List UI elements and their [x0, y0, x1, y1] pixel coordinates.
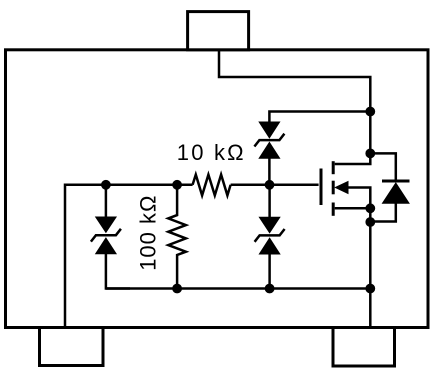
- node R2 top: [172, 180, 182, 190]
- node MOSFET source: [365, 203, 375, 213]
- source rail: [106, 287, 370, 290]
- node gate left (zener D2 top): [101, 180, 111, 190]
- node MOSFET drain: [365, 149, 375, 159]
- wire upper zener to drain node: [269, 112, 370, 123]
- MOSFET Q1 gate bar: [320, 169, 323, 206]
- wire zener D3 top lead: [268, 185, 271, 218]
- wire zener D3 bottom lead to rail: [268, 254, 271, 289]
- bottom-left tab (gate pin): [40, 328, 104, 366]
- svg-text:100 kΩ: 100 kΩ: [136, 195, 161, 271]
- wire body diode anode to source node: [370, 203, 396, 222]
- node rail zener D3: [265, 284, 275, 294]
- node gate (zener junction): [265, 180, 275, 190]
- wire drain node to body diode cathode: [370, 153, 396, 181]
- resistor R1 10 kOhm: [193, 175, 231, 196]
- MOSFET Q1 drain lead: [335, 153, 371, 164]
- wire left zener bottom lead to rail: [106, 254, 130, 289]
- package outline: [6, 50, 429, 328]
- top tab (drain pad): [188, 12, 249, 50]
- body diode D4 triangle: [383, 183, 410, 203]
- wire from top tab to drain node: [219, 50, 370, 112]
- bottom-right tab (source pin): [333, 328, 395, 367]
- wire drain node down to MOSFET drain node: [369, 112, 372, 154]
- zener pair D1 (gate-drain clamp): [254, 122, 284, 158]
- body diode D4 cathode bar: [382, 180, 410, 183]
- MOSFET Q1 channel top segment: [332, 161, 335, 174]
- node rail source column: [365, 284, 375, 294]
- wire source node down to rail: [369, 208, 372, 288]
- node rail R2 bottom: [172, 284, 182, 294]
- MOSFET Q1 channel bottom segment: [332, 203, 335, 216]
- gate line right segment: [231, 184, 319, 187]
- MOSFET Q1 source lead: [335, 207, 371, 210]
- MOSFET Q1 channel middle segment: [332, 181, 335, 195]
- node drain junction: [365, 107, 375, 117]
- zener pair D2 (gate clamp, left): [91, 217, 121, 254]
- wire rail to source pin: [369, 289, 372, 328]
- MOSFET Q1 body lead: [348, 188, 370, 209]
- gate line left segment: [65, 185, 193, 327]
- wire left zener top lead: [105, 185, 108, 217]
- node body diode anode: [365, 217, 375, 227]
- resistor R2 100 kOhm: [168, 185, 186, 289]
- zener pair D3 (gate-source clamp): [255, 217, 285, 254]
- wire zener D1 to gate node: [268, 158, 271, 185]
- svg-text:10 kΩ: 10 kΩ: [177, 140, 246, 165]
- MOSFET Q1 body arrow: [335, 182, 348, 194]
